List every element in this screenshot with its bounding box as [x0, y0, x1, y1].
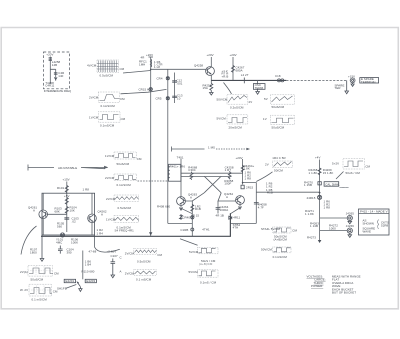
svg-text:50V/CM: 50V/CM — [261, 248, 272, 252]
oscilloscope graticule W3 — [89, 112, 126, 128]
svg-text:C4R11: C4R11 — [45, 84, 54, 88]
svg-text:Q4258: Q4258 — [194, 64, 203, 68]
capacitor C4R — [54, 73, 58, 74]
svg-text:E4201: E4201 — [66, 279, 75, 283]
svg-text:CM: CM — [292, 229, 297, 233]
svg-text:A: A — [120, 270, 122, 274]
svg-text:4R: 4R — [141, 56, 145, 60]
transistor Q5 — [177, 197, 186, 206]
svg-text:1V/CM: 1V/CM — [105, 154, 115, 158]
svg-text:C304: C304 — [188, 168, 196, 172]
svg-text:14F: 14F — [58, 74, 63, 78]
terminal box OSC TERM — [253, 84, 265, 90]
svg-text:560: 560 — [57, 225, 62, 229]
ferrite bead FB1 — [318, 182, 321, 185]
inductor L4258 — [49, 58, 52, 61]
svg-text:4TH: 4TH — [233, 225, 239, 229]
junction arrow on bus — [149, 232, 152, 235]
ground spare — [345, 80, 349, 93]
callout wire to W12 — [180, 239, 198, 245]
oscilloscope graticule W5 — [227, 115, 248, 124]
wire Q2 output curve — [95, 235, 120, 252]
svg-text:2V: 2V — [249, 100, 253, 104]
oscilloscope graticule W4 — [227, 95, 248, 105]
svg-text:44R15: 44R15 — [307, 196, 316, 200]
svg-text:CM: CM — [54, 272, 59, 276]
svg-text:0.5uS/CM: 0.5uS/CM — [137, 260, 151, 264]
wire output J1 — [320, 217, 348, 219]
oscilloscope graticule W16 — [343, 159, 365, 170]
svg-text:680A: 680A — [236, 68, 243, 72]
svg-text:+5V: +5V — [64, 194, 69, 198]
transistor Q4 — [206, 67, 215, 76]
oscilloscope graticule WA — [114, 152, 136, 159]
ground C107 — [111, 266, 115, 278]
callout wire bus to W4 — [224, 83, 232, 95]
wire multivib output to divider — [243, 183, 320, 224]
svg-text:C107: C107 — [111, 254, 119, 258]
wire Q1 collector — [42, 193, 44, 235]
svg-text:100F: 100F — [224, 181, 231, 185]
wire Q4 emitter — [210, 75, 212, 84]
ground osc terminal — [256, 89, 260, 94]
svg-text:15 1.8K: 15 1.8K — [323, 171, 334, 175]
svg-text:1V/CM: 1V/CM — [89, 116, 99, 120]
svg-text:2V: 2V — [265, 163, 269, 167]
svg-text:CM: CM — [120, 67, 125, 71]
dimension line ADJUSTABLE — [28, 165, 108, 171]
svg-text:+4V: +4V — [315, 156, 320, 160]
oscilloscope graticule W13 — [198, 270, 218, 277]
svg-text:CR5: CR5 — [156, 97, 162, 101]
svg-text:C18: C18 — [275, 74, 281, 78]
svg-text:CM: CM — [120, 97, 125, 101]
svg-text:4R11: 4R11 — [233, 215, 240, 219]
oscilloscope graticule W1 (hatched) — [87, 60, 125, 78]
svg-text:TER: TER — [335, 86, 341, 90]
svg-text:R4273: R4273 — [307, 236, 316, 240]
svg-text:390: 390 — [67, 251, 72, 255]
resistor R420 — [318, 168, 321, 175]
svg-text:+R.B: +R.B — [222, 74, 229, 78]
capacitor C103 — [64, 218, 69, 219]
resistor R405 — [190, 172, 193, 180]
svg-text:CR40: CR40 — [182, 215, 190, 219]
svg-text:R1B: R1B — [195, 207, 201, 211]
svg-text:1 1.8K: 1 1.8K — [309, 171, 318, 175]
svg-text:ADJUSTABLE: ADJUSTABLE — [58, 166, 77, 170]
svg-text:5V/CM: 5V/CM — [217, 117, 227, 121]
resistor R22 — [232, 66, 235, 73]
oscilloscope graticule W6 — [271, 95, 295, 104]
connector P1 — [318, 195, 322, 199]
wire base feed to Q4 — [151, 68, 206, 70]
wire divider chain — [319, 160, 321, 241]
oscilloscope graticule W11 — [134, 270, 157, 276]
svg-text:5V/CM: 5V/CM — [189, 270, 199, 274]
wire cross-couple X — [204, 176, 221, 193]
svg-text:INTERMEDIATE FREQ: INTERMEDIATE FREQ — [44, 89, 71, 93]
svg-text:A: A — [226, 195, 228, 199]
wire IF box internal vertical — [49, 57, 51, 85]
svg-text:+15V: +15V — [63, 178, 70, 182]
crystal Y1 — [60, 233, 64, 237]
svg-text:C: C — [120, 256, 122, 260]
svg-text:R110 680: R110 680 — [82, 270, 95, 274]
ground divider — [318, 240, 322, 243]
capacitor C416 — [254, 202, 259, 204]
resistor R406 — [228, 171, 231, 179]
svg-text:0.1mS/CM: 0.1mS/CM — [100, 124, 115, 128]
svg-text:10K: 10K — [70, 209, 75, 213]
svg-text:0.5uS/CM: 0.5uS/CM — [118, 206, 132, 210]
ground amp box — [40, 235, 44, 261]
oscilloscope graticule W14 — [273, 227, 291, 233]
oscilloscope graticule WC — [114, 195, 139, 201]
svg-text:R101: R101 — [57, 186, 65, 190]
svg-text:50uS/CM: 50uS/CM — [31, 278, 44, 282]
squiggle mark — [340, 186, 349, 189]
svg-text:1R4 C 5R: 1R4 C 5R — [272, 156, 285, 160]
svg-text:+20V: +20V — [146, 53, 153, 57]
svg-text:1 R4: 1 R4 — [97, 232, 104, 236]
wire oscillator output bus — [211, 79, 286, 81]
svg-text:1V/CM: 1V/CM — [106, 218, 116, 222]
resistor R407 — [241, 165, 244, 173]
svg-text:T401: T401 — [177, 156, 184, 160]
svg-text:2R15: 2R15 — [246, 186, 254, 190]
svg-text:CR15 A: CR15 A — [139, 87, 149, 91]
svg-text:.02: .02 — [72, 220, 77, 224]
svg-text:CAL 5MHL: CAL 5MHL — [325, 182, 340, 186]
oscilloscope graticule WB — [114, 174, 137, 181]
callout wire WB to T1 — [138, 180, 168, 182]
svg-text:0.1mS/CM: 0.1mS/CM — [101, 104, 116, 108]
connector E1 — [350, 78, 355, 83]
terminal tag E3 — [85, 279, 96, 282]
diode CR4 — [166, 77, 169, 80]
resistor R102 — [65, 198, 68, 205]
oscilloscope graticule W7 — [271, 115, 295, 124]
svg-text:1 14B: 1 14B — [310, 224, 318, 228]
svg-text:50uS/CM: 50uS/CM — [272, 105, 285, 109]
svg-text:R1B: R1B — [267, 190, 273, 194]
svg-text:L4 2T: L4 2T — [241, 73, 249, 77]
svg-text:14B: 14B — [52, 63, 57, 67]
wire Q1 base — [47, 213, 66, 215]
svg-text:(A+B)/CM: (A+B)/CM — [274, 237, 288, 241]
calibration tag box — [324, 182, 339, 187]
wire bottom return bus — [41, 213, 230, 236]
svg-text:2V(A): 2V(A) — [20, 270, 28, 274]
svg-text:A: A — [33, 209, 35, 213]
svg-text:5V: 5V — [264, 97, 268, 101]
wire drop to E4203 — [82, 251, 84, 280]
svg-text:CM: CM — [157, 253, 162, 257]
svg-text:50uS / CM: 50uS / CM — [346, 171, 361, 175]
ground J2 — [348, 233, 352, 237]
callout wire W16 to CAL — [336, 172, 344, 180]
diode CR3 — [149, 88, 152, 91]
transistor Q1 — [39, 210, 48, 219]
svg-text:10: 10 — [177, 97, 181, 101]
svg-text:.001: .001 — [177, 82, 183, 86]
svg-text:SH1FB: SH1FB — [57, 287, 67, 291]
intermediate-frequency unit dashed box — [44, 52, 70, 89]
svg-text:1MH: 1MH — [139, 63, 145, 67]
svg-text:0.2uS/CM: 0.2uS/CM — [230, 106, 244, 110]
oscilloscope graticule W10 — [134, 248, 157, 254]
oscilloscope graticule W15 — [273, 247, 291, 253]
svg-text:S4 FREQ 4R1: S4 FREQ 4R1 — [115, 229, 135, 233]
svg-text:4MC: 4MC — [56, 241, 62, 245]
svg-text:POWER:: POWER: — [311, 284, 323, 288]
arc callout to W17 — [256, 172, 272, 182]
svg-text:CM: CM — [365, 165, 370, 169]
wire collector load branch — [232, 57, 234, 80]
svg-text:+20V: +20V — [230, 53, 237, 57]
callout wire W2 to CR4 — [121, 89, 167, 93]
svg-text:1 15B: 1 15B — [304, 183, 312, 187]
wire main vertical bus x150.6 — [150, 57, 152, 236]
terminal tag E2 — [64, 279, 75, 282]
svg-text:A: A — [190, 196, 192, 200]
oscilloscope graticule W12 — [198, 247, 218, 253]
transistor Q2 — [88, 214, 97, 223]
wire multivib supply — [242, 159, 244, 185]
oscilloscope graticule WD — [114, 215, 139, 222]
svg-text:50uS/CM: 50uS/CM — [117, 162, 130, 166]
svg-text:1000A: 1000A — [220, 208, 229, 212]
svg-text:1 R8: 1 R8 — [324, 206, 331, 210]
svg-text:2V/CM: 2V/CM — [125, 272, 135, 276]
svg-text:1 B4: 1 B4 — [85, 262, 92, 266]
svg-text:0.5uS/CM: 0.5uS/CM — [100, 74, 114, 78]
wire Q2 collector — [91, 193, 93, 235]
resistor R410 — [191, 201, 193, 236]
wire T1 secondary taps — [181, 173, 243, 176]
svg-text:CM: CM — [121, 117, 126, 121]
assembly info box — [359, 209, 390, 235]
dimension line 1 MS — [172, 147, 205, 152]
brace — [377, 220, 380, 229]
connector J2 — [347, 228, 352, 233]
wire amp supply — [66, 182, 68, 233]
svg-text:STA4L 5V/CM: STA4L 5V/CM — [261, 227, 281, 231]
capacitor C12 — [172, 81, 177, 82]
callout wire W1 to CR3 — [123, 71, 151, 74]
oscilloscope graticule W17 — [273, 161, 293, 168]
svg-text:50/CM: 50/CM — [274, 169, 283, 173]
svg-text:1000: 1000 — [329, 227, 336, 231]
svg-text:52R8: 52R8 — [381, 224, 389, 228]
svg-text:1 MS: 1 MS — [208, 146, 215, 150]
svg-text:TERM: TERM — [255, 86, 264, 90]
capacitor C104 — [58, 246, 63, 254]
capacitor C415 — [241, 185, 244, 189]
svg-text:E4203: E4203 — [86, 279, 95, 283]
transformer T1 — [169, 164, 181, 181]
wire output J2 — [320, 230, 348, 232]
ground Q4 emitter — [210, 90, 214, 95]
svg-text:5+2V: 5+2V — [332, 162, 339, 166]
svg-text:J4265: J4265 — [346, 212, 355, 216]
svg-text:1 L8: 1 L8 — [154, 65, 160, 69]
svg-text:0.1mS/CM: 0.1mS/CM — [117, 183, 132, 187]
svg-text:4.7F: 4.7F — [258, 205, 264, 209]
svg-text:47-68: 47-68 — [89, 250, 97, 254]
svg-text:1V: 1V — [263, 117, 267, 121]
wire stub to C4R — [50, 69, 55, 81]
svg-text:TERMINAL: TERMINAL — [361, 80, 377, 84]
svg-text:5V/CM: 5V/CM — [189, 250, 199, 254]
svg-text:1 R8: 1 R8 — [83, 188, 90, 192]
svg-text:R408 680: R408 680 — [157, 205, 170, 209]
wire shield arc — [21, 226, 37, 255]
diode CR7 — [180, 214, 183, 220]
svg-text:R401+ 1R6: R401+ 1R6 — [170, 165, 186, 169]
svg-text:+20V: +20V — [207, 53, 214, 57]
svg-text:20mS/CM: 20mS/CM — [229, 126, 243, 130]
svg-text:J4266: J4266 — [346, 224, 355, 228]
capacitor C13 — [172, 96, 177, 97]
svg-text:W. 2V: W. 2V — [20, 288, 28, 292]
wire vertical bus x167.8 — [168, 69, 193, 223]
svg-text:P415 - 14 - MADE V: P415 - 14 - MADE V — [360, 209, 388, 213]
connector J1 — [347, 215, 352, 220]
svg-text:C1RB: C1RB — [180, 228, 188, 232]
svg-text:0.1mS / CM: 0.1mS / CM — [200, 281, 217, 285]
terminal box spare — [360, 78, 379, 83]
svg-text:2V/CM: 2V/CM — [105, 176, 115, 180]
svg-text:(A+B)/CM: (A+B)/CM — [199, 262, 213, 266]
svg-text:SHOWN: SHOWN — [363, 222, 374, 226]
svg-text:4TH1: 4TH1 — [202, 228, 210, 232]
svg-text:+20V: +20V — [236, 156, 243, 160]
svg-text:4V/CM: 4V/CM — [87, 64, 97, 68]
svg-text:50V/CM: 50V/CM — [217, 98, 228, 102]
svg-text:+0.65V: +0.65V — [107, 250, 117, 254]
svg-text:2V/CM: 2V/CM — [89, 96, 99, 100]
svg-text:1800: 1800 — [30, 251, 37, 255]
diode CR9 — [229, 216, 232, 219]
diode CR5 — [166, 97, 169, 100]
resistor R103 — [65, 207, 68, 214]
svg-text:CM: CM — [137, 157, 142, 161]
svg-text:2V/CM: 2V/CM — [125, 251, 135, 255]
svg-text:0.1 mS/CM: 0.1 mS/CM — [32, 298, 48, 302]
svg-text:A: A — [101, 213, 103, 217]
svg-text:100K: 100K — [71, 241, 78, 245]
oscilloscope graticule W2 — [89, 92, 125, 108]
svg-text:0.1 mS/CM: 0.1 mS/CM — [136, 278, 152, 282]
svg-text:WAVE: WAVE — [363, 230, 372, 234]
oscilloscope graticule W9 — [29, 284, 51, 296]
ground S1 — [79, 287, 82, 292]
transistor Q6 — [236, 196, 245, 205]
resistor R101 — [65, 186, 68, 193]
svg-text:15A: 15A — [203, 86, 208, 90]
wire Q5 emitter — [180, 205, 182, 209]
svg-text:BUT OF BUCKET: BUT OF BUCKET — [332, 291, 356, 295]
svg-text:50uS/CM: 50uS/CM — [272, 126, 285, 130]
wire cap branch x174.6 — [174, 73, 176, 104]
svg-text:CR4: CR4 — [157, 77, 163, 81]
capacitor C18 on bus — [278, 79, 281, 82]
svg-text:1 R8: 1 R8 — [245, 177, 252, 181]
resistor R21 — [210, 84, 213, 91]
capacitor C410 — [217, 201, 219, 214]
oscillator shield box — [42, 193, 95, 235]
svg-text:68K: 68K — [55, 210, 60, 214]
svg-text:4R 1B: 4R 1B — [216, 213, 224, 217]
wire Q6 emitter — [238, 204, 241, 209]
wire drop to osc terminal — [257, 80, 259, 83]
svg-text:1 R7: 1 R7 — [225, 168, 232, 172]
svg-text:0.1mS/CM: 0.1mS/CM — [273, 255, 288, 259]
svg-text:1 1.8K: 1 1.8K — [305, 212, 314, 216]
oscilloscope graticule W8 — [28, 266, 52, 277]
svg-text:2V/CM: 2V/CM — [106, 197, 116, 201]
svg-text:+20V: +20V — [46, 53, 53, 57]
diode CR8 — [191, 216, 194, 219]
